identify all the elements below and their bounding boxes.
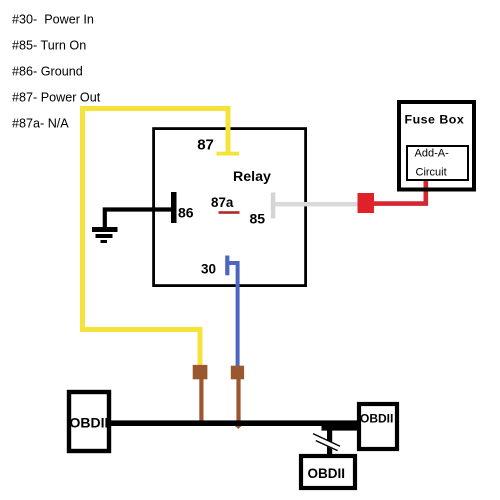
svg-text:Circuit: Circuit — [416, 167, 447, 179]
wire black ground from pin 86 — [105, 210, 171, 229]
break slash upper — [313, 434, 340, 447]
obdii box bottom — [301, 456, 355, 488]
svg-text:Relay: Relay — [233, 169, 271, 185]
svg-text:87: 87 — [197, 137, 214, 154]
wire gray from pin 85 to red splice — [275, 202, 359, 206]
red splice connector — [358, 193, 375, 213]
svg-text:#87a- N/A: #87a- N/A — [12, 117, 69, 131]
svg-text:#85- Turn On: #85- Turn On — [12, 39, 86, 53]
bus jog to right obdii — [322, 424, 358, 430]
wire blue from pin 30 down to splice — [227, 263, 237, 366]
obdii box right — [359, 404, 397, 449]
wire drop to bottom obdii — [327, 425, 332, 456]
svg-text:86: 86 — [178, 205, 194, 221]
break slash lower — [316, 441, 338, 451]
wire brown left down to bus — [199, 379, 203, 424]
svg-text:87a: 87a — [211, 195, 234, 210]
add-a-circuit box — [407, 146, 468, 180]
svg-text:Add-A-: Add-A- — [415, 148, 450, 160]
bus wire black — [111, 420, 357, 426]
pin 86 terminal bar — [171, 192, 177, 223]
brown wire arrowhead — [235, 426, 242, 429]
svg-text:OBDII: OBDII — [360, 411, 393, 425]
wire brown right down to bus — [236, 379, 240, 426]
svg-text:OBDII: OBDII — [70, 414, 109, 430]
svg-text:#30- Power In: #30- Power In — [12, 13, 94, 27]
wire red from splice to fuse tap — [373, 181, 426, 204]
wire yellow from pin 87 to splice — [83, 109, 229, 367]
obdii box left — [69, 392, 109, 451]
pin 87a red terminal line — [219, 211, 240, 214]
brown splice connector right — [231, 366, 244, 380]
svg-text:#86- Ground: #86- Ground — [12, 65, 83, 79]
pin 85 terminal bar (gray) — [271, 193, 276, 219]
svg-text:30: 30 — [201, 262, 216, 277]
pin 87 terminal bar — [217, 152, 240, 156]
wire break gap — [311, 434, 342, 453]
svg-text:OBDII: OBDII — [308, 466, 346, 481]
ground symbol — [92, 227, 118, 243]
svg-text:Fuse Box: Fuse Box — [405, 113, 465, 127]
relay box — [154, 129, 306, 286]
svg-text:85: 85 — [250, 211, 266, 227]
brown splice connector left — [193, 365, 208, 379]
svg-text:#87- Power Out: #87- Power Out — [12, 91, 101, 105]
fuse box — [399, 102, 474, 190]
pin 30 terminal stub (blue) — [225, 256, 229, 276]
